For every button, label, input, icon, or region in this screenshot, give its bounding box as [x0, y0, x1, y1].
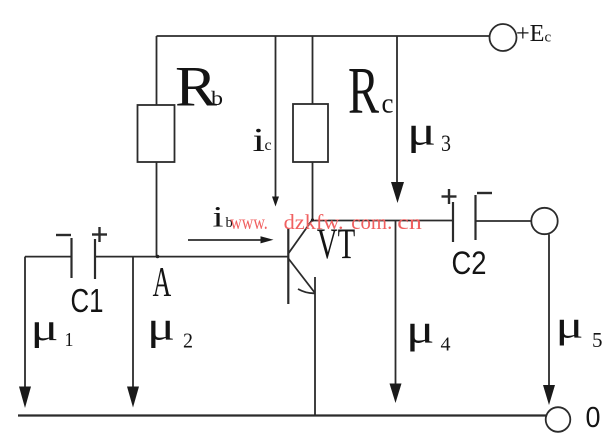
- svg-text:5: 5: [592, 328, 603, 352]
- svg-text:2: 2: [183, 328, 193, 352]
- svg-text:c: c: [265, 137, 272, 154]
- svg-text:μ: μ: [31, 307, 59, 349]
- svg-text:μ: μ: [407, 109, 436, 154]
- svg-text:μ: μ: [556, 305, 584, 347]
- svg-text:+E: +E: [516, 21, 545, 47]
- svg-text:1: 1: [65, 329, 74, 351]
- svg-text:c: c: [545, 30, 552, 46]
- svg-text:C2: C2: [452, 245, 487, 281]
- svg-text:c: c: [382, 87, 394, 119]
- svg-text:i: i: [253, 122, 266, 159]
- svg-text:μ: μ: [406, 306, 435, 352]
- svg-text:i: i: [213, 201, 224, 234]
- svg-text:R: R: [348, 53, 379, 127]
- svg-text:C1: C1: [71, 282, 104, 319]
- svg-text:b: b: [211, 88, 223, 110]
- svg-text:A: A: [153, 260, 172, 306]
- svg-text:3: 3: [441, 131, 451, 156]
- svg-text:4: 4: [441, 334, 451, 356]
- svg-text:μ: μ: [147, 304, 175, 349]
- svg-text:0: 0: [586, 402, 601, 434]
